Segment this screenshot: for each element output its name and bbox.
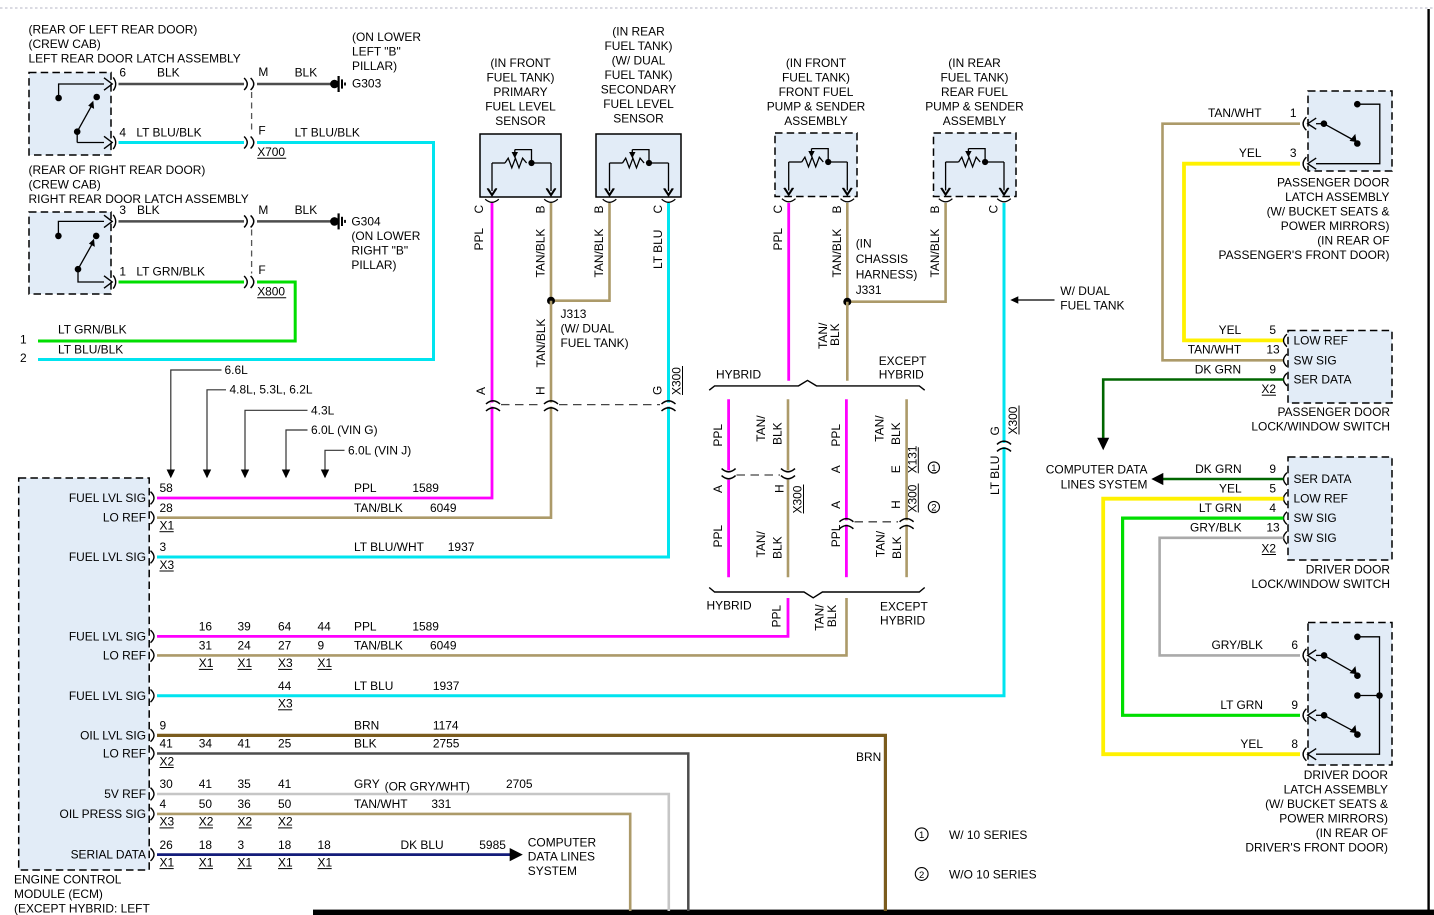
wire TAN/BLK hybrid branch (787, 399, 790, 470)
svg-text:TAN/BLK: TAN/BLK (830, 229, 844, 278)
svg-text:FUEL LEVEL: FUEL LEVEL (485, 100, 556, 114)
svg-text:DATA LINES: DATA LINES (528, 850, 595, 864)
connector X300 pin H hybrid (786, 473, 791, 477)
svg-text:LOW REF: LOW REF (1294, 492, 1348, 506)
svg-text:HARNESS): HARNESS) (856, 268, 918, 282)
svg-text:X1: X1 (199, 855, 214, 869)
svg-text:X1: X1 (238, 656, 253, 670)
pin 5 of S5 (1284, 492, 1288, 505)
svg-text:HYBRID: HYBRID (707, 599, 752, 613)
page top dotted border (0, 7, 1434, 9)
pin 6 of S1 (104, 78, 112, 90)
svg-text:9: 9 (318, 639, 325, 653)
passenger door lock/window switch S4 (1288, 331, 1392, 404)
svg-text:2: 2 (20, 351, 27, 365)
legend callout 2 w/o 10 series (915, 868, 928, 881)
svg-text:X2: X2 (238, 815, 253, 829)
connector X800 pin M (244, 215, 247, 227)
svg-text:1937: 1937 (448, 540, 475, 554)
wire LT BLU/BLK S1 pin4 to X700 F (119, 141, 245, 144)
svg-text:BLK: BLK (295, 66, 318, 80)
wire BLK X700 M to G303 (257, 83, 331, 86)
svg-text:64: 64 (278, 620, 292, 634)
svg-text:LT BLU/BLK: LT BLU/BLK (58, 343, 123, 357)
svg-text:1174: 1174 (433, 719, 459, 733)
svg-text:PASSENGER DOOR: PASSENGER DOOR (1277, 176, 1390, 190)
svg-text:X1: X1 (318, 656, 333, 670)
svg-text:41: 41 (160, 737, 174, 751)
svg-text:HYBRID: HYBRID (880, 614, 925, 628)
wire LT BLU/BLK X700 F to node 2 (38, 143, 434, 360)
svg-text:PILLAR): PILLAR) (351, 258, 396, 272)
ECM pin FUEL LVL SIG y557 (151, 551, 155, 564)
svg-text:PPL: PPL (770, 605, 784, 628)
svg-text:(ON LOWER: (ON LOWER (352, 30, 421, 44)
connector X700 pin M (244, 78, 247, 90)
driver door latch assembly S6 (1308, 623, 1392, 766)
svg-text:PUMP & SENDER: PUMP & SENDER (767, 100, 866, 114)
svg-text:C: C (651, 205, 665, 214)
wire GRY ECM 5v-ref down to bottom (157, 794, 669, 911)
svg-text:E: E (889, 465, 903, 473)
connector X300 dashed link except-hybrid (855, 521, 899, 523)
primary fuel level sensor B1 (480, 134, 561, 197)
svg-text:BRN: BRN (354, 719, 379, 733)
svg-text:(EXCEPT HYBRID: LEFT: (EXCEPT HYBRID: LEFT (14, 901, 150, 915)
svg-text:F: F (258, 263, 265, 277)
svg-text:A: A (829, 465, 843, 473)
ground G303 (330, 80, 339, 89)
svg-text:9: 9 (1269, 462, 1276, 476)
svg-text:2755: 2755 (433, 737, 460, 751)
svg-text:BLK: BLK (771, 422, 785, 445)
svg-text:5: 5 (1269, 323, 1276, 337)
svg-text:COMPUTER: COMPUTER (528, 835, 597, 849)
svg-text:MODULE (ECM): MODULE (ECM) (14, 887, 103, 901)
svg-text:TAN/WHT: TAN/WHT (354, 797, 408, 811)
svg-text:4.8L, 5.3L, 6.2L: 4.8L, 5.3L, 6.2L (230, 383, 313, 397)
svg-text:41: 41 (238, 737, 252, 751)
svg-text:(W/ DUAL: (W/ DUAL (612, 54, 666, 68)
pin B of B2 (605, 188, 615, 195)
svg-text:SENSOR: SENSOR (495, 114, 546, 128)
svg-text:(IN FRONT: (IN FRONT (490, 56, 551, 70)
w/ dual fuel tank pointer arrow (1017, 299, 1055, 301)
svg-text:C: C (472, 205, 486, 214)
svg-text:LT BLU/BLK: LT BLU/BLK (136, 126, 201, 140)
svg-text:1: 1 (20, 333, 27, 347)
callout 1 circle (928, 462, 939, 473)
svg-text:26: 26 (160, 838, 174, 852)
svg-text:(IN REAR: (IN REAR (948, 56, 1001, 70)
svg-text:J313: J313 (561, 307, 587, 321)
pin C of B2 (664, 188, 674, 195)
pin 4 of S1 (104, 136, 112, 148)
svg-text:EXCEPT: EXCEPT (879, 354, 927, 368)
svg-text:PPL: PPL (354, 620, 377, 634)
svg-text:B: B (830, 206, 844, 214)
svg-text:X131: X131 (905, 445, 919, 473)
svg-text:6: 6 (1291, 638, 1298, 652)
svg-text:G: G (651, 386, 665, 395)
svg-text:TAN/BLK: TAN/BLK (354, 501, 403, 515)
svg-text:LINES SYSTEM: LINES SYSTEM (1061, 478, 1148, 492)
engine variant pointer 6.0L VIN G (286, 430, 308, 477)
wire TAN/BLK B1-B to splice J313 (550, 203, 553, 301)
svg-text:DRIVER DOOR: DRIVER DOOR (1306, 563, 1391, 577)
pin B of B3 (843, 188, 853, 195)
svg-text:18: 18 (278, 838, 292, 852)
svg-text:1: 1 (119, 265, 126, 279)
svg-text:B: B (928, 206, 942, 214)
svg-text:41: 41 (199, 777, 213, 791)
wire PPL except-hybrid branch (845, 399, 848, 521)
svg-text:OIL LVL SIG: OIL LVL SIG (80, 728, 146, 742)
svg-text:LT BLU: LT BLU (651, 230, 665, 269)
connector X300 pin A (491, 403, 496, 407)
svg-text:44: 44 (318, 620, 332, 634)
lower brace hybrid / except hybrid (709, 588, 925, 598)
svg-text:YEL: YEL (1240, 737, 1263, 751)
callout 2 circle (928, 501, 939, 512)
svg-text:GRY: GRY (354, 777, 380, 791)
svg-text:X2: X2 (1261, 382, 1276, 396)
wire TAN/WHT ECM oil-press down to bottom (157, 814, 630, 911)
svg-text:PPL: PPL (711, 424, 725, 447)
ECM pin 5V REF y794 (151, 788, 155, 801)
svg-text:OIL PRESS SIG: OIL PRESS SIG (60, 807, 146, 821)
svg-text:18: 18 (318, 838, 332, 852)
svg-text:X1: X1 (318, 855, 333, 869)
svg-text:FUEL TANK): FUEL TANK) (561, 336, 629, 350)
svg-text:30: 30 (160, 777, 174, 791)
page bottom black bar (313, 910, 1434, 915)
svg-text:C: C (987, 205, 1001, 214)
wire TAN/BLK B2-B to splice J313 (551, 203, 610, 301)
svg-text:GRY/BLK: GRY/BLK (1211, 638, 1263, 652)
svg-text:POWER MIRRORS): POWER MIRRORS) (1281, 219, 1390, 233)
svg-text:LEFT "B": LEFT "B" (352, 44, 401, 58)
svg-text:(REAR OF LEFT REAR DOOR): (REAR OF LEFT REAR DOOR) (29, 23, 198, 37)
pin B of B1 (546, 188, 556, 195)
pin 9 of S4 (1284, 373, 1288, 386)
svg-text:X3: X3 (278, 697, 293, 711)
svg-text:FUEL LVL SIG: FUEL LVL SIG (69, 689, 146, 703)
svg-text:RIGHT "B": RIGHT "B" (351, 243, 408, 257)
svg-text:331: 331 (431, 797, 451, 811)
svg-text:(CREW CAB): (CREW CAB) (29, 37, 101, 51)
svg-text:FRONT FUEL: FRONT FUEL (779, 85, 854, 99)
svg-text:LATCH ASSEMBLY: LATCH ASSEMBLY (1284, 783, 1388, 797)
svg-text:39: 39 (238, 620, 252, 634)
svg-text:DK BLU: DK BLU (401, 838, 444, 852)
svg-text:35: 35 (238, 777, 252, 791)
wire PPL B1-C to connector X300 A and ECM pin 58 (157, 203, 492, 498)
splice J313 (547, 297, 555, 305)
svg-text:DK GRN: DK GRN (1195, 462, 1241, 476)
svg-text:2: 2 (919, 870, 924, 881)
svg-text:PPL: PPL (354, 481, 377, 495)
svg-text:TAN/WHT: TAN/WHT (1188, 343, 1242, 357)
svg-text:36: 36 (238, 797, 252, 811)
pin 9 of S5 (1284, 473, 1288, 486)
svg-text:FUEL TANK): FUEL TANK) (940, 71, 1008, 85)
connector X300 pin H (549, 403, 554, 407)
svg-text:TAN/: TAN/ (754, 415, 768, 442)
svg-text:G304: G304 (351, 215, 381, 229)
svg-text:PPL: PPL (829, 424, 843, 447)
svg-text:X1: X1 (278, 855, 293, 869)
svg-text:50: 50 (199, 797, 213, 811)
engine variant pointer 4.3L (245, 410, 308, 477)
svg-text:X3: X3 (160, 815, 175, 829)
svg-text:J331: J331 (856, 283, 882, 297)
svg-text:BLK: BLK (828, 323, 842, 346)
pin B of B4 (941, 188, 951, 195)
svg-text:SENSOR: SENSOR (613, 112, 664, 126)
wire BLK S1 pin6 to X700 M (119, 83, 245, 86)
svg-text:SYSTEM: SYSTEM (528, 864, 577, 878)
svg-text:X700: X700 (257, 145, 285, 159)
svg-text:28: 28 (160, 501, 174, 515)
svg-text:LT GRN: LT GRN (1220, 698, 1263, 712)
svg-text:DRIVER'S FRONT DOOR): DRIVER'S FRONT DOOR) (1245, 841, 1388, 855)
svg-text:TAN/BLK: TAN/BLK (534, 229, 548, 278)
svg-text:3: 3 (119, 203, 126, 217)
svg-text:LT GRN/BLK: LT GRN/BLK (58, 323, 127, 337)
svg-text:PPL: PPL (472, 228, 486, 251)
svg-text:TAN/BLK: TAN/BLK (928, 229, 942, 278)
connector X300 dashed links (501, 404, 543, 406)
page right border (1427, 9, 1429, 915)
upper brace hybrid / except hybrid (709, 380, 925, 390)
engine control module ECM U1 (19, 478, 150, 870)
svg-text:6049: 6049 (430, 639, 457, 653)
pin 3 of S2 (104, 215, 112, 227)
svg-text:(W/ DUAL: (W/ DUAL (561, 322, 615, 336)
svg-text:LT BLU/BLK: LT BLU/BLK (295, 126, 360, 140)
svg-text:6.0L (VIN G): 6.0L (VIN G) (311, 423, 378, 437)
wire BRN ECM pin 9 down to bottom (157, 735, 885, 911)
svg-text:X1: X1 (238, 855, 253, 869)
wire TAN/BLK B4-B to splice J331 (847, 203, 945, 302)
wire LT GRN/BLK S2 pin1 to X800 F (119, 281, 245, 284)
svg-text:(IN REAR OF: (IN REAR OF (1317, 234, 1389, 248)
svg-text:13: 13 (1266, 521, 1280, 535)
wire TAN/WHT S3 pin1 to passenger lock/window switch pin13 (1163, 124, 1301, 361)
svg-text:BLK: BLK (157, 66, 180, 80)
svg-text:1589: 1589 (412, 481, 439, 495)
engine variant pointer 6.6L (171, 370, 222, 477)
svg-text:M: M (258, 203, 268, 217)
svg-text:X2: X2 (1261, 541, 1276, 555)
svg-text:BLK: BLK (771, 536, 785, 559)
svg-text:41: 41 (278, 777, 292, 791)
svg-text:LT GRN: LT GRN (1199, 501, 1242, 515)
svg-text:(W/ BUCKET SEATS &: (W/ BUCKET SEATS & (1267, 205, 1390, 219)
connector X300 pin H except-hybrid (904, 520, 909, 524)
svg-text:TAN/BLK: TAN/BLK (592, 229, 606, 278)
svg-text:(OR GRY/WHT): (OR GRY/WHT) (385, 780, 470, 794)
wire TAN/BLK except-hybrid branch (905, 399, 908, 521)
wire PPL hybrid branch (727, 399, 730, 470)
pin 3 of S3 (1308, 158, 1317, 169)
svg-text:BLK: BLK (889, 422, 903, 445)
svg-text:B: B (534, 206, 548, 214)
svg-text:2: 2 (931, 503, 936, 514)
connector X800 dashed link (251, 230, 253, 274)
svg-text:X300: X300 (670, 367, 684, 395)
svg-text:X2: X2 (199, 815, 214, 829)
svg-text:SW SIG: SW SIG (1294, 531, 1337, 545)
svg-text:SW SIG: SW SIG (1294, 353, 1337, 367)
svg-text:LO REF: LO REF (103, 747, 146, 761)
svg-text:(IN REAR: (IN REAR (612, 25, 665, 39)
svg-text:5985: 5985 (479, 838, 506, 852)
svg-text:(REAR OF RIGHT REAR DOOR): (REAR OF RIGHT REAR DOOR) (29, 163, 206, 177)
svg-text:LO REF: LO REF (103, 648, 146, 662)
svg-text:SW SIG: SW SIG (1294, 511, 1337, 525)
connector X300 pin A hybrid (726, 473, 731, 477)
svg-text:YEL: YEL (1239, 146, 1262, 160)
svg-text:YEL: YEL (1219, 481, 1242, 495)
svg-text:5V REF: 5V REF (104, 787, 146, 801)
svg-text:6: 6 (119, 66, 126, 80)
svg-text:A: A (474, 387, 488, 395)
pin 9 of S6 (1308, 710, 1317, 721)
svg-text:FUEL TANK): FUEL TANK) (604, 39, 672, 53)
svg-text:FUEL LVL SIG: FUEL LVL SIG (69, 629, 146, 643)
svg-text:ENGINE CONTROL: ENGINE CONTROL (14, 873, 122, 887)
svg-text:FUEL LVL SIG: FUEL LVL SIG (69, 550, 146, 564)
passenger door latch assembly S3 (1308, 91, 1392, 171)
svg-text:C: C (771, 205, 785, 214)
svg-text:M: M (258, 65, 268, 79)
wire BLK S2 pin3 to X800 M (119, 220, 245, 223)
svg-text:BLK: BLK (825, 605, 839, 628)
wire PPL B3-C to hybrid brace (787, 203, 790, 381)
svg-text:(IN: (IN (856, 237, 872, 251)
svg-text:PPL: PPL (771, 228, 785, 251)
svg-text:8: 8 (1291, 737, 1298, 751)
svg-text:LEFT REAR DOOR LATCH ASSEMBLY: LEFT REAR DOOR LATCH ASSEMBLY (29, 52, 241, 66)
svg-text:TAN/WHT: TAN/WHT (1208, 106, 1262, 120)
svg-text:X1: X1 (199, 656, 214, 670)
svg-text:DRIVER DOOR: DRIVER DOOR (1304, 768, 1389, 782)
svg-text:COMPUTER DATA: COMPUTER DATA (1046, 462, 1148, 476)
pin 1 of S3 (1308, 118, 1317, 129)
wire TAN/BLK B3-B to splice J331 (846, 203, 849, 302)
wire DK GRN S5 pin9 to computer data lines (1163, 478, 1284, 481)
svg-text:16: 16 (199, 620, 213, 634)
svg-text:SER DATA: SER DATA (1294, 373, 1352, 387)
svg-text:9: 9 (1269, 362, 1276, 376)
svg-text:X300: X300 (905, 484, 919, 512)
svg-text:HYBRID: HYBRID (716, 367, 761, 381)
svg-text:FUEL TANK): FUEL TANK) (604, 68, 672, 82)
svg-text:TAN/BLK: TAN/BLK (354, 639, 403, 653)
svg-text:EXCEPT: EXCEPT (880, 600, 928, 614)
svg-text:3: 3 (160, 540, 167, 554)
svg-text:SECONDARY: SECONDARY (601, 83, 676, 97)
svg-text:FUEL LEVEL: FUEL LEVEL (603, 97, 674, 111)
svg-text:(ON LOWER: (ON LOWER (351, 229, 420, 243)
svg-text:LOW REF: LOW REF (1294, 333, 1348, 347)
svg-text:A: A (711, 485, 725, 493)
wire LT BLU B2-C to connector X300 G and ECM pin 3 (157, 203, 669, 557)
svg-text:1: 1 (1290, 106, 1297, 120)
svg-text:PRIMARY: PRIMARY (493, 85, 547, 99)
svg-text:FUEL LVL SIG: FUEL LVL SIG (69, 491, 146, 505)
svg-text:1: 1 (931, 463, 936, 474)
svg-text:TAN/: TAN/ (874, 530, 888, 557)
wire LT BLU B4-C to connector X300 G and ECM pin 44 (157, 203, 1004, 696)
svg-text:6.6L: 6.6L (225, 363, 249, 377)
rear fuel pump and sender assembly B4 (934, 133, 1017, 197)
svg-text:FUEL TANK): FUEL TANK) (782, 71, 850, 85)
svg-text:H: H (773, 484, 787, 493)
pin 13 of S4 (1284, 354, 1288, 367)
svg-text:TAN/BLK: TAN/BLK (534, 319, 548, 368)
wire YEL S3 pin3 to passenger lock/window switch pin5 (1184, 164, 1300, 341)
pin 13 of S5 (1284, 532, 1288, 545)
svg-text:SER DATA: SER DATA (1294, 472, 1352, 486)
svg-text:4: 4 (1269, 501, 1276, 515)
svg-text:ASSEMBLY: ASSEMBLY (943, 114, 1007, 128)
svg-text:REAR FUEL: REAR FUEL (941, 85, 1008, 99)
connector X700 pin F (244, 137, 247, 149)
wire BLK ECM lo-ref down to bottom (157, 754, 688, 912)
svg-text:G303: G303 (352, 77, 382, 91)
ECM pin FUEL LVL SIG y498 (151, 492, 155, 505)
svg-text:2705: 2705 (506, 777, 533, 791)
svg-text:ASSEMBLY: ASSEMBLY (784, 114, 848, 128)
pin C of B3 (784, 188, 794, 195)
svg-text:5: 5 (1269, 481, 1276, 495)
svg-text:34: 34 (199, 737, 213, 751)
svg-text:B: B (592, 206, 606, 214)
svg-text:BLK: BLK (890, 536, 904, 559)
svg-text:BLK: BLK (137, 203, 160, 217)
ECM pin OIL PRESS SIG y813 (151, 808, 155, 821)
svg-text:X3: X3 (160, 558, 175, 572)
svg-text:F: F (258, 124, 265, 138)
svg-text:PUMP & SENDER: PUMP & SENDER (925, 100, 1024, 114)
pin 6 of S6 (1308, 650, 1317, 661)
connector X300 pin G (666, 403, 671, 407)
svg-text:6049: 6049 (430, 501, 457, 515)
pin 5 of S4 (1284, 334, 1288, 347)
svg-text:G: G (988, 426, 1002, 435)
svg-text:X300: X300 (1006, 406, 1020, 434)
svg-text:BLK: BLK (354, 737, 377, 751)
svg-text:4: 4 (119, 126, 126, 140)
connector X300 pin G on LT BLU (1002, 443, 1007, 447)
svg-text:DK GRN: DK GRN (1195, 362, 1241, 376)
svg-text:3: 3 (1290, 146, 1297, 160)
svg-text:W/ 10 SERIES: W/ 10 SERIES (949, 828, 1027, 842)
svg-text:A: A (829, 501, 843, 509)
svg-text:31: 31 (199, 639, 213, 653)
svg-text:(W/ BUCKET SEATS &: (W/ BUCKET SEATS & (1265, 797, 1388, 811)
svg-text:FUEL TANK: FUEL TANK (1060, 298, 1124, 312)
svg-text:PILLAR): PILLAR) (352, 59, 397, 73)
ECM pin OIL LVL SIG y735 (151, 729, 155, 742)
ground G304 (330, 217, 339, 226)
svg-text:H: H (534, 386, 548, 395)
svg-text:X1: X1 (160, 855, 175, 869)
ECM pin SERIAL DATA y854 (151, 848, 155, 861)
